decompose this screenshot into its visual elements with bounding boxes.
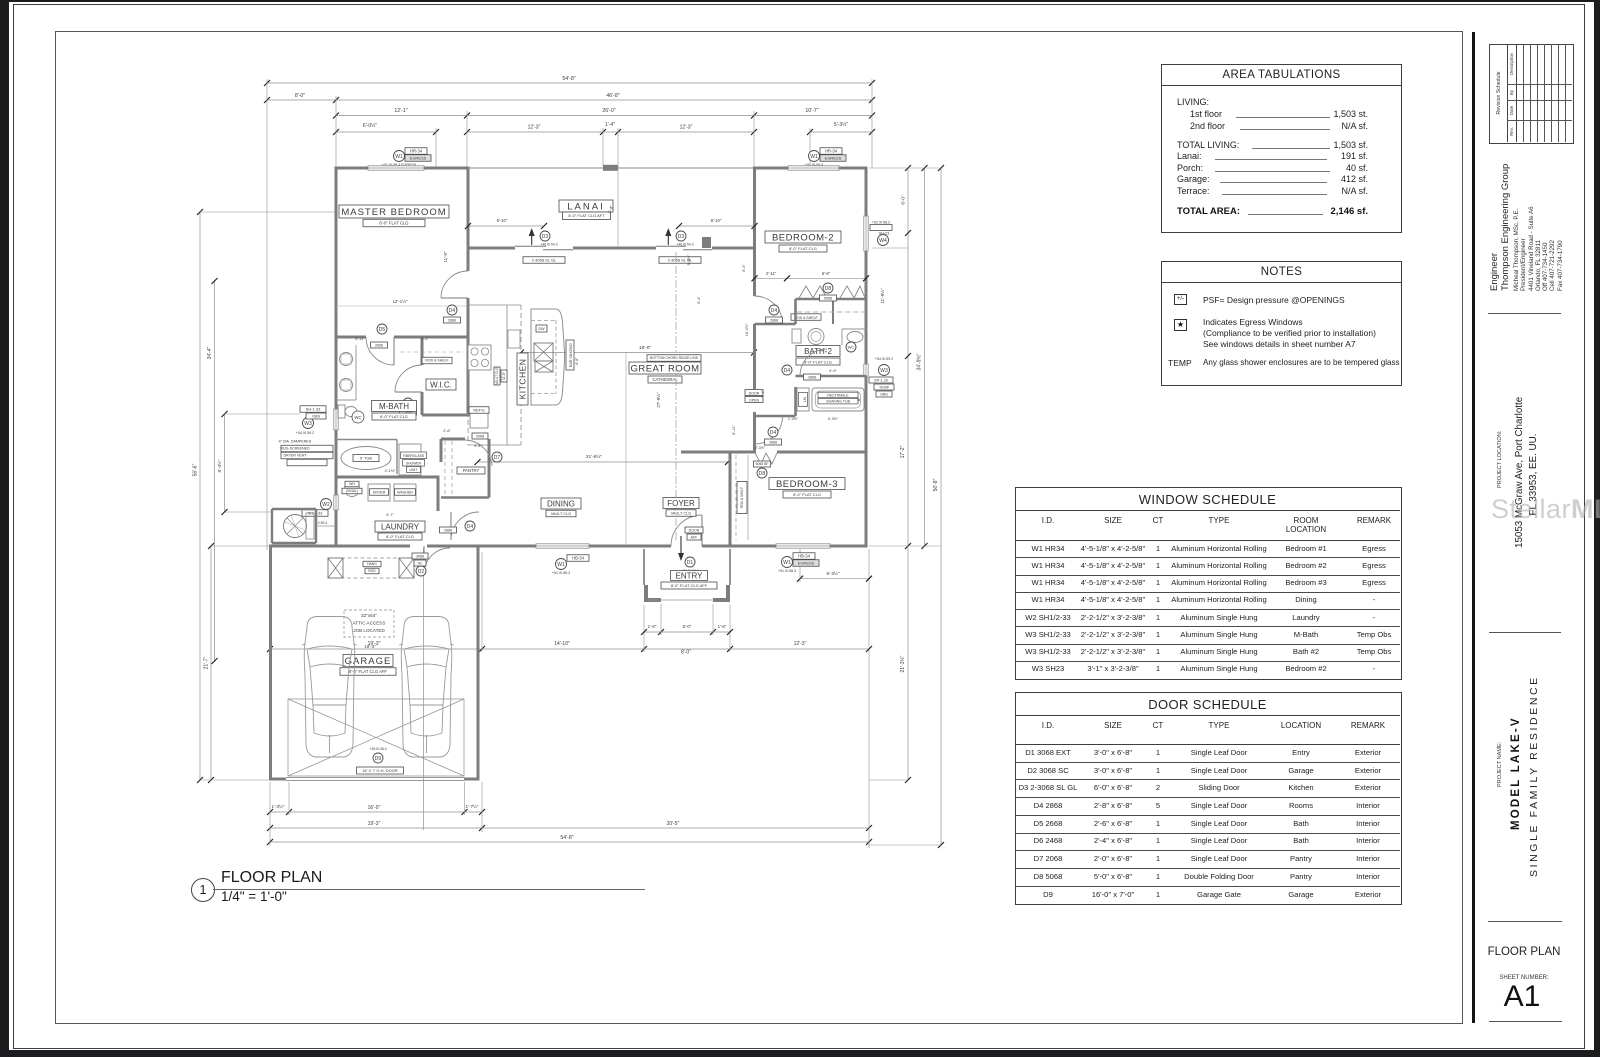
svg-text:16' X 7' O.H. DOOR: 16' X 7' O.H. DOOR [362,768,398,773]
D8 label bedroom2 closets [823,283,833,293]
svg-text:12'-1½": 12'-1½" [393,299,408,304]
dimension row 54-8 top [267,82,872,84]
svg-text:D3: D3 [678,234,685,240]
engineer block (rotated, bottom-aligned at y=291) [1489,176,1567,291]
bath2 closet-side wall [794,299,797,324]
svg-text:VAULT CLG: VAULT CLG [551,512,572,516]
bath2 upper-left wall [755,323,796,326]
right vertical dims [907,168,909,248]
mbath bottom wall [336,476,440,479]
svg-text:21'-3½": 21'-3½" [899,655,906,672]
bedroom2 left wall [753,168,756,249]
wic rod-shelf [422,357,452,364]
svg-text:4" DIA. DAMPERED: 4" DIA. DAMPERED [279,439,312,443]
svg-text:1'-4½": 1'-4½" [788,417,799,421]
svg-text:34'-4": 34'-4" [207,346,213,359]
dryer vent note [281,445,333,452]
svg-text:D4: D4 [449,308,456,314]
svg-text:-2.59.4: -2.59.4 [317,521,328,525]
bedroom3 label [769,478,845,490]
garage interior line [423,548,425,830]
svg-text:GARAGE: GARAGE [345,656,392,667]
svg-text:MASTER BEDROOM: MASTER BEDROOM [341,207,446,218]
svg-text:D8: D8 [759,471,766,477]
svg-text:D9: D9 [375,756,382,762]
mid dim row 19-3 / 14-10 / 8-0 / 12-3 [270,648,482,650]
porch pillar right [713,585,730,602]
svg-text:KITCHEN: KITCHEN [518,359,528,400]
car 2 [399,617,454,758]
window W1 dining bottom [556,559,567,570]
pantry walls [441,438,465,441]
revision schedule table (rotated) [1489,44,1574,144]
svg-text:54'-8": 54'-8" [562,76,575,82]
garage label [343,655,393,667]
rod shelf closet label [791,314,821,321]
svg-text:+46.6/-54.3: +46.6/-54.3 [676,243,693,247]
bath2 toilet [792,329,801,343]
svg-text:8'-0" FLAT CLG: 8'-0" FLAT CLG [789,246,817,251]
svg-text:VAULT CLG: VAULT CLG [671,511,692,515]
svg-text:5'-3½": 5'-3½" [828,417,839,421]
door D7 pantry [465,440,492,466]
svg-text:BEDROOM-2: BEDROOM-2 [772,232,834,243]
bedroom3 bottom wall [729,545,777,548]
svg-text:D5: D5 [379,327,386,333]
svg-text:HANG: HANG [367,562,377,566]
svg-text:8'-0": 8'-0" [295,93,305,99]
svg-text:8'-0" FLAT CLG: 8'-0" FLAT CLG [804,359,832,364]
svg-text:1'-3½": 1'-3½" [272,803,285,809]
bedroom2 top wall [753,167,790,170]
mbath label [372,401,417,412]
svg-text:8'-10": 8'-10" [711,218,722,223]
svg-text:ROD & SHELF: ROD & SHELF [740,487,744,508]
svg-text:SH-1.33: SH-1.33 [306,406,321,411]
svg-text:WC: WC [848,344,855,349]
mbath vanity [355,345,357,400]
bedroom3 left wall [729,452,732,548]
dimension row 6-0 / 12-3 / 1-4 / 12-3 / 5-3 [336,131,436,133]
window W3 mbath left [334,409,338,430]
entry label [671,571,708,581]
bottom chord ridge line label [647,355,701,362]
svg-text:12'-3": 12'-3" [680,125,693,131]
svg-text:+52.9/-58.2: +52.9/-58.2 [872,221,890,225]
svg-text:REF'G: REF'G [473,408,484,412]
svg-text:EGRESS: EGRESS [825,155,842,160]
wic label [426,379,456,390]
bedroom3 top wall [729,451,755,454]
svg-text:LANAI: LANAI [567,201,604,212]
svg-text:BEDROOM-3: BEDROOM-3 [776,479,838,490]
svg-text:+54.9/-59.2: +54.9/-59.2 [875,357,893,361]
master bedroom top wall [336,167,370,170]
svg-text:AFF: AFF [691,535,699,539]
dimension row 12-1 / 26-0 / 10-7 [336,115,467,117]
sliding door D3 left [515,245,546,247]
sliding door D3 right [656,245,686,247]
attic access note [344,610,394,637]
svg-text:1'-7½": 1'-7½" [466,803,479,809]
bedroom3 closet [735,455,737,540]
svg-text:8'-0": 8'-0" [681,650,691,656]
svg-text:M-BATH: M-BATH [379,402,409,411]
svg-text:2'-3½": 2'-3½" [755,446,766,450]
svg-text:6'-8": 6'-8" [575,357,579,365]
svg-text:D1: D1 [687,560,694,566]
svg-text:21'-7": 21'-7" [204,656,210,669]
svg-text:W4: W4 [879,238,887,244]
svg-text:8'-11": 8'-11" [732,425,736,435]
svg-text:SOAKING TUB: SOAKING TUB [826,400,851,404]
bottom dim rows [270,811,289,813]
svg-text:D4: D4 [770,430,777,436]
svg-text:HR-34: HR-34 [825,148,838,153]
svg-text:OPEN: OPEN [749,398,760,402]
svg-text:26'-0": 26'-0" [602,108,615,114]
pantry shelves [444,441,446,495]
bedroom2 interior dim [755,277,867,279]
svg-text:5' TUB: 5' TUB [360,455,372,460]
dim 6-3 bedroom3 bottom [800,578,869,580]
svg-text:5068: 5068 [824,297,832,301]
garage X brace [288,699,464,776]
svg-text:8'-0" FLAT CLG AFT: 8'-0" FLAT CLG AFT [568,213,605,218]
svg-text:11'-8": 11'-8" [502,372,506,380]
svg-text:34'-9½": 34'-9½" [916,353,923,370]
svg-text:27'-9½": 27'-9½" [655,392,661,408]
svg-text:2868: 2868 [808,376,816,380]
svg-text:4'-1½": 4'-1½" [385,469,396,473]
linen closet [797,388,809,411]
svg-text:WASHER: WASHER [397,490,413,494]
hood note [494,367,500,385]
dim 21-8 dining [478,461,729,463]
master bottom wall [336,336,366,339]
svg-text:2868: 2868 [770,319,778,323]
svg-text:FIBERGLASS: FIBERGLASS [403,454,425,458]
svg-text:11'-9": 11'-9" [443,251,448,262]
door D4 master [441,271,468,298]
svg-text:4'-2": 4'-2" [421,337,429,341]
foyer label [663,498,699,509]
svg-text:8'-0" FLAT CLG: 8'-0" FLAT CLG [380,414,408,419]
svg-text:OBS: OBS [312,414,320,418]
svg-text:8'-0" FLAT CLG: 8'-0" FLAT CLG [379,220,408,225]
project location (rotated) [1497,434,1504,488]
svg-text:W.I.C.: W.I.C. [430,380,452,389]
2-3068 SL GL label right [659,257,701,264]
svg-text:5'-3½": 5'-3½" [834,121,848,128]
svg-text:TEMP: TEMP [879,385,890,389]
svg-text:2868: 2868 [769,441,777,445]
svg-text:D4: D4 [771,308,778,314]
laundry right wall [437,477,440,511]
foyer top wall [681,451,730,454]
svg-text:+54.9/-59.2: +54.9/-59.2 [296,431,314,435]
svg-text:21'-8½": 21'-8½" [586,453,603,460]
car 1 [302,617,357,758]
mbath tub nook [336,439,397,441]
svg-text:2-3068 SL GL: 2-3068 SL GL [532,257,558,262]
separator [1488,313,1561,314]
svg-text:EGRESS: EGRESS [410,155,427,160]
great room label [629,362,701,374]
island DW label [536,325,547,332]
bath2 bottom wall [796,375,867,378]
svg-text:ENTRY: ENTRY [676,571,704,580]
svg-text:D4: D4 [467,524,474,530]
svg-text:19'-3": 19'-3" [368,821,381,827]
svg-text:8'-0" FLAT CLG AFF: 8'-0" FLAT CLG AFF [671,583,708,588]
svg-text:4'-4": 4'-4" [474,444,482,448]
island [531,309,565,405]
window symbol W1 master top [394,151,405,162]
svg-text:HR-34: HR-34 [410,148,423,153]
dimension row 8-0 / 46-8 [267,99,336,101]
svg-text:7'-4": 7'-4" [761,390,765,398]
svg-text:+28.0/-36.0: +28.0/-36.0 [369,747,386,751]
svg-text:SHOWER: SHOWER [406,462,422,466]
dining window bottom [536,544,589,548]
garage door label D9 [373,753,383,763]
svg-text:DOOR: DOOR [749,391,760,395]
svg-text:LAUNDRY: LAUNDRY [381,522,420,531]
svg-text:BOTTOM CHORD RIDGE LINE: BOTTOM CHORD RIDGE LINE [650,356,699,360]
svg-text:D7: D7 [494,455,501,461]
bedroom2 label [765,231,841,243]
kitchen label rotated [517,353,528,405]
svg-text:1'-6": 1'-6" [648,624,657,629]
window W1 bedroom3 bottom [782,557,793,568]
svg-text:BAR SEATING: BAR SEATING [569,343,573,367]
garage door opening [286,777,464,779]
svg-text:(50GAL): (50GAL) [346,489,358,493]
svg-text:5068 BF: 5068 BF [756,462,769,466]
svg-text:LIN: LIN [803,396,807,402]
entry porch walls [643,549,645,585]
svg-text:DRYER: DRYER [373,490,386,494]
svg-text:OBS: OBS [880,392,888,396]
svg-text:56'-6": 56'-6" [193,463,199,476]
svg-text:DINING: DINING [547,499,575,508]
svg-text:6'-0": 6'-0" [901,195,906,205]
lanai corner column [702,237,711,248]
svg-text:6'-4": 6'-4" [742,264,746,272]
kitchen sink [508,330,520,348]
bedroom2 closet wall [796,298,867,301]
D3 arrow right [667,232,669,245]
refrigerator [470,412,488,428]
svg-text:HB-34: HB-34 [572,555,585,560]
svg-text:D4: D4 [784,368,791,374]
door D5 [366,337,394,365]
svg-text:+46.6/-54.3: +46.6/-54.3 [540,243,557,247]
title block divider [1472,32,1475,1023]
w3 window label mbath [303,418,314,429]
svg-text:12'-3": 12'-3" [794,641,807,647]
svg-text:DRYER VENT: DRYER VENT [283,453,307,457]
lanai label [559,200,613,212]
svg-text:2868: 2868 [448,318,456,322]
svg-text:RECTANGLE: RECTANGLE [827,393,849,397]
svg-text:9'-7": 9'-7" [386,513,394,517]
svg-text:BATH-2: BATH-2 [804,347,832,356]
svg-text:16'-0": 16'-0" [368,805,381,811]
svg-text:56'-8": 56'-8" [933,478,939,491]
master bedroom right wall [467,168,470,271]
scan black edges [0,0,9,1057]
tub [812,388,864,411]
svg-text:2'-6": 2'-6" [443,429,451,433]
lanai top column [603,165,618,171]
svg-text:6'-0½": 6'-0½" [363,122,377,129]
window W3 bath2 right [864,364,868,376]
wic left wall [421,339,424,366]
door D2 laundry-garage [423,546,425,572]
svg-text:D3: D3 [542,234,549,240]
watermark [1491,494,1600,525]
svg-text:+51.9/-56.3: +51.9/-56.3 [552,571,570,575]
door D4 laundry-dining [450,512,452,540]
2-3068 SL GL label left [523,257,565,264]
svg-text:ROD: ROD [368,569,376,573]
w2 window label [321,499,332,510]
svg-text:CATHEDRAL: CATHEDRAL [652,377,678,382]
svg-text:8'-0" FLAT CLG: 8'-0" FLAT CLG [793,492,821,497]
house left exterior wall [335,167,338,410]
svg-text:PANTRY: PANTRY [463,468,480,473]
svg-text:W2: W2 [322,502,330,508]
svg-text:16'-4½": 16'-4½" [745,323,749,336]
lanai top screen line [468,167,754,169]
svg-text:WC: WC [355,415,362,420]
svg-text:6'-10": 6'-10" [497,218,508,223]
svg-text:SP-1.33: SP-1.33 [874,378,888,382]
svg-text:ATTIC ACCESS: ATTIC ACCESS [353,621,386,626]
svg-text:ROD & SHELF: ROD & SHELF [794,316,817,320]
svg-text:2068: 2068 [476,434,484,438]
svg-text:4'-9": 4'-9" [829,369,837,373]
dim 18-0 kitchen/great [521,352,754,354]
svg-text:W1: W1 [810,154,818,160]
closet bifold doors bedroom2 [799,286,827,298]
svg-text:VAULT CLG: VAULT CLG [495,367,499,385]
hall door open label [745,390,763,396]
island dishwasher X box [535,361,553,372]
master bedroom label [339,205,449,218]
svg-text:17'-2": 17'-2" [900,445,906,458]
svg-text:5'-0": 5'-0" [683,624,692,629]
svg-text:EGRESS: EGRESS [798,560,815,565]
bar seating label [566,340,574,370]
stove [468,345,491,370]
project name (rotated) [1497,736,1504,787]
svg-text:20'-5": 20'-5" [667,821,680,827]
dining label [541,498,581,509]
svg-text:3068: 3068 [416,554,424,558]
svg-text:46'-8": 46'-8" [606,93,619,99]
porch pillar left [644,585,661,602]
svg-text:D8: D8 [825,286,832,292]
svg-text:W1: W1 [395,154,403,160]
svg-text:54'-8": 54'-8" [560,835,573,841]
svg-text:1'-6": 1'-6" [718,624,727,629]
door D4 bath2-tub [800,349,827,376]
pool bath [272,508,316,510]
porch dims 1-6 5-0 1-6 [644,631,661,633]
svg-text:5'-11": 5'-11" [355,337,365,341]
tub room walls [794,387,797,416]
svg-text:8'-4½": 8'-4½" [216,459,222,472]
svg-text:6'-6": 6'-6" [822,271,831,276]
lanai bottom wall [467,247,516,250]
window W2 laundry left [334,495,338,510]
hallway-great room right wall [753,248,756,296]
svg-text:+51.9/-56.3: +51.9/-56.3 [778,569,796,573]
svg-text:RUG-SCREENED: RUG-SCREENED [280,446,310,450]
svg-text:WH: WH [349,482,355,486]
right exterior wall [865,167,868,217]
laundry label [375,521,425,532]
island sink X box [534,343,553,361]
svg-text:10'-7": 10'-7" [805,108,818,114]
svg-text:12'-1": 12'-1" [394,108,407,114]
door D4 bath2 entry [755,296,783,324]
svg-text:W1: W1 [557,562,565,568]
bath2 vanity [841,329,843,345]
svg-text:22"x54": 22"x54" [361,613,377,618]
svg-text:DOOR: DOOR [689,528,700,532]
laundry appliances [368,484,390,501]
svg-text:6'-4": 6'-4" [697,296,701,304]
separator [1489,632,1561,633]
svg-text:W3: W3 [304,421,312,427]
door D4 bedroom3 hall [755,416,783,444]
svg-text:W3: W3 [880,368,888,374]
window W4 right [864,216,868,251]
D8 bifold bedroom3 [755,453,777,464]
svg-text:JOB LOCATED: JOB LOCATED [353,628,385,633]
svg-text:1'-4": 1'-4" [605,122,615,128]
svg-text:DW: DW [539,327,546,331]
svg-text:FOYER: FOYER [667,499,695,508]
wic bottom wall [422,414,470,417]
bath2 label [796,346,840,357]
separator [1488,921,1562,922]
svg-text:14'-10": 14'-10" [554,641,570,647]
svg-text:6'-3½": 6'-3½" [827,570,840,576]
svg-text:D2: D2 [418,569,425,575]
attic access dashed band [328,558,414,578]
wic right wall [467,337,470,415]
svg-text:HB-34: HB-34 [798,553,811,558]
svg-text:8'-0" FLAT CLG: 8'-0" FLAT CLG [386,534,414,539]
svg-text:SC: SC [418,561,423,565]
dim extension lines top [266,79,268,550]
svg-text:2868: 2868 [444,528,452,532]
closet divider [832,299,834,324]
svg-text:2'-11": 2'-11" [766,271,777,276]
house bottom wall dining-foyer [477,545,537,548]
svg-text:ROD & SHELF: ROD & SHELF [425,359,448,363]
svg-text:11'-9½": 11'-9½" [879,288,885,304]
mbath toilet [338,405,345,418]
svg-text:5'-4½": 5'-4½" [687,254,691,265]
svg-text:12'-3": 12'-3" [528,125,541,131]
kitchen counters [467,340,469,445]
